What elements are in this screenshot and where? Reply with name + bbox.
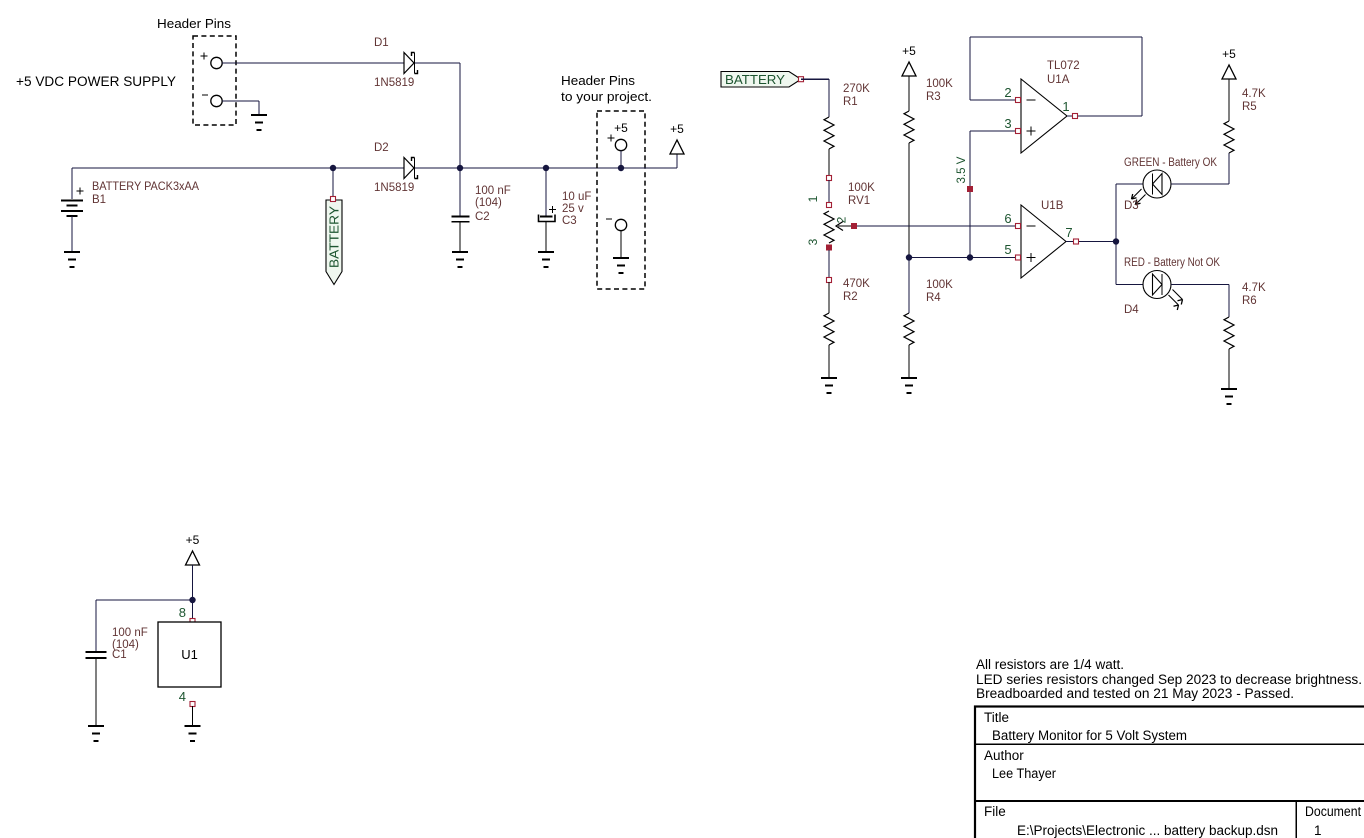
title block divider 2 bbox=[974, 800, 1364, 802]
wire to +5 arrow bbox=[621, 154, 677, 168]
label (104) (C1) bbox=[112, 639, 139, 651]
svg-text:E:\Projects\Electronic ... bat: E:\Projects\Electronic ... battery backu… bbox=[1017, 823, 1278, 838]
wire - pin to ground bbox=[222, 101, 259, 114]
wire R3 junction to R4 bbox=[908, 258, 910, 314]
resistor R3 100K bbox=[904, 111, 914, 257]
ground (U1) bbox=[185, 726, 201, 741]
junction 3.5V node bbox=[967, 254, 973, 260]
power flag +5 (U1) bbox=[186, 533, 200, 565]
svg-text:+5: +5 bbox=[670, 122, 684, 136]
label R1 bbox=[843, 96, 858, 108]
svg-text:5: 5 bbox=[1004, 242, 1011, 257]
svg-text:3.5 V: 3.5 V bbox=[956, 156, 968, 183]
label 470K (R2) bbox=[843, 278, 870, 290]
label U1A bbox=[1047, 74, 1070, 86]
junction output header bbox=[618, 165, 624, 171]
text Title bbox=[984, 710, 1009, 725]
wire to D3 bbox=[1116, 184, 1143, 242]
label RV1 bbox=[848, 195, 870, 207]
label 1N5819 (D2) bbox=[374, 182, 414, 194]
power flag +5 (R3) bbox=[902, 44, 916, 76]
svg-text:File: File bbox=[984, 804, 1006, 819]
pin - of input header bbox=[202, 95, 222, 107]
label 25 v (C3) bbox=[562, 203, 584, 215]
svg-text:TL072: TL072 bbox=[1047, 60, 1080, 72]
svg-text:R3: R3 bbox=[926, 91, 941, 103]
svg-text:U1B: U1B bbox=[1041, 200, 1064, 212]
wire R1 to RV1 bbox=[828, 180, 830, 204]
svg-text:Title: Title bbox=[984, 710, 1009, 725]
svg-text:R4: R4 bbox=[926, 292, 941, 304]
svg-text:100K: 100K bbox=[926, 279, 953, 291]
LED D3 green bbox=[1132, 170, 1172, 205]
connector J2 dashed outline bbox=[597, 111, 645, 289]
svg-text:1: 1 bbox=[806, 195, 820, 202]
pot RV1 pin3 square bbox=[826, 245, 832, 251]
svg-text:RV1: RV1 bbox=[848, 195, 870, 207]
label D1 bbox=[374, 37, 389, 49]
svg-text:100 nF: 100 nF bbox=[112, 627, 148, 639]
pin + of input header bbox=[201, 53, 223, 69]
label C2 bbox=[475, 211, 490, 223]
wire +5 to U1 pin8 bbox=[192, 565, 194, 620]
pin 8 (U1) bbox=[179, 605, 195, 624]
svg-text:BATTERY: BATTERY bbox=[725, 73, 786, 87]
svg-text:(104): (104) bbox=[475, 197, 502, 209]
label R3 bbox=[926, 91, 941, 103]
pin square R2 top bbox=[827, 278, 832, 283]
text +5 VDC POWER SUPPLY bbox=[16, 74, 176, 89]
label 100 nF (C1) bbox=[112, 627, 148, 639]
text Header Pins (output) bbox=[561, 73, 636, 88]
wire battery rail bbox=[72, 167, 404, 169]
text document number 1 bbox=[1314, 823, 1322, 838]
ground (battery B1) bbox=[64, 252, 80, 267]
ground (R2) bbox=[821, 378, 837, 393]
svg-text:+5: +5 bbox=[902, 44, 916, 58]
op-amp U1A TL072 bbox=[1021, 79, 1067, 153]
capacitor C2 100nF bbox=[452, 168, 470, 251]
resistor R6 4.7K bbox=[1224, 317, 1234, 388]
resistor R1 270K bbox=[824, 117, 834, 177]
label 100K (R3) bbox=[926, 78, 953, 90]
svg-text:R5: R5 bbox=[1242, 101, 1257, 113]
svg-text:1N5819: 1N5819 bbox=[374, 77, 414, 89]
svg-text:3: 3 bbox=[1004, 116, 1011, 131]
wire RV1 wiper to pin6 bbox=[857, 225, 1021, 227]
svg-text:All resistors are 1/4 watt.: All resistors are 1/4 watt. bbox=[976, 657, 1124, 672]
junction R3/R4 bbox=[906, 254, 912, 260]
svg-text:Author: Author bbox=[984, 748, 1024, 763]
pot RV1 pin1 square bbox=[827, 203, 832, 208]
svg-text:GREEN - Battery OK: GREEN - Battery OK bbox=[1124, 157, 1217, 169]
wire C2 to C3 bbox=[460, 167, 546, 169]
ground (R4) bbox=[901, 378, 917, 393]
pot RV1 pin2 square bbox=[851, 223, 857, 229]
op-amp U1B bbox=[1021, 205, 1066, 278]
label 4.7K (R6) bbox=[1242, 282, 1266, 294]
svg-text:100 nF: 100 nF bbox=[475, 185, 511, 197]
text Lee Thayer bbox=[992, 766, 1056, 781]
pin - of output header bbox=[606, 219, 627, 257]
pin 2 (U1A) bbox=[1004, 85, 1020, 103]
svg-text:4.7K: 4.7K bbox=[1242, 282, 1266, 294]
pin 7 (U1B) bbox=[1065, 225, 1078, 244]
capacitor C1 100nF bbox=[86, 652, 107, 725]
junction battery/flag bbox=[330, 165, 336, 171]
ground (R6) bbox=[1221, 389, 1237, 404]
svg-text:2: 2 bbox=[835, 216, 849, 223]
power flag +5 (main rail) bbox=[670, 122, 684, 154]
svg-text:Header Pins: Header Pins bbox=[157, 16, 232, 31]
ground (C2) bbox=[452, 252, 468, 267]
diode D1 1N5819 bbox=[404, 53, 418, 74]
svg-text:3: 3 bbox=[806, 238, 820, 245]
svg-text:270K: 270K bbox=[843, 83, 870, 95]
label B1 bbox=[92, 194, 106, 206]
wire + pin to D1 bbox=[222, 62, 404, 64]
wire U1 pin4 to ground bbox=[192, 706, 194, 725]
pin number 3 (RV1) bbox=[806, 238, 820, 245]
title block divider vertical bbox=[1295, 801, 1297, 838]
svg-text:BATTERY: BATTERY bbox=[328, 205, 342, 268]
svg-text:LED series resistors changed S: LED series resistors changed Sep 2023 to… bbox=[976, 672, 1362, 687]
text to your project. bbox=[561, 89, 652, 104]
label RED - Battery Not OK bbox=[1124, 257, 1220, 269]
svg-text:25 v: 25 v bbox=[562, 203, 584, 215]
label TL072 bbox=[1047, 60, 1080, 72]
svg-text:+5 VDC POWER SUPPLY: +5 VDC POWER SUPPLY bbox=[16, 74, 176, 89]
note LED resistors bbox=[976, 672, 1362, 687]
svg-text:4: 4 bbox=[179, 689, 186, 704]
wire BATTERY flag to R1 bbox=[801, 79, 829, 117]
label GREEN - Battery OK bbox=[1124, 157, 1217, 169]
svg-text:C2: C2 bbox=[475, 211, 490, 223]
svg-text:+5: +5 bbox=[1222, 47, 1236, 61]
wire junction row bbox=[909, 257, 1021, 259]
svg-text:R1: R1 bbox=[843, 96, 858, 108]
connector J1 dashed outline bbox=[193, 36, 236, 125]
svg-text:D2: D2 bbox=[374, 142, 389, 154]
label 100K (R4) bbox=[926, 279, 953, 291]
junction at C2 bbox=[457, 165, 463, 171]
wire D2 to +5 node bbox=[415, 167, 460, 169]
net flag BATTERY (vertical) bbox=[326, 197, 342, 285]
IC U1 box bbox=[158, 622, 221, 687]
label 100 nF (C2) bbox=[475, 185, 511, 197]
label BATTERY PACK3xAA bbox=[92, 181, 199, 193]
wire D1 to +5 node bbox=[415, 63, 460, 168]
svg-text:100K: 100K bbox=[926, 78, 953, 90]
label (104) (C2) bbox=[475, 197, 502, 209]
resistor R4 100K bbox=[904, 313, 914, 377]
ground (C1) bbox=[88, 726, 104, 741]
label U1B bbox=[1041, 200, 1064, 212]
power flag +5 (R5) bbox=[1222, 47, 1236, 79]
title block divider 1 bbox=[974, 743, 1364, 745]
svg-text:1: 1 bbox=[1062, 99, 1069, 114]
svg-text:1: 1 bbox=[1314, 823, 1322, 838]
wire D4 to R6 bbox=[1171, 285, 1229, 318]
label C1 bbox=[112, 649, 127, 661]
text Battery Monitor for 5 Volt System bbox=[992, 728, 1187, 743]
wire +5 to R3 bbox=[908, 76, 910, 111]
label R5 bbox=[1242, 101, 1257, 113]
wire RV1 to R2 bbox=[828, 250, 830, 279]
text File bbox=[984, 804, 1006, 819]
LED D4 red bbox=[1143, 271, 1183, 311]
text file path bbox=[1017, 823, 1278, 838]
wire D3 to R5 bbox=[1171, 153, 1229, 184]
svg-text:10 uF: 10 uF bbox=[562, 191, 591, 203]
svg-text:4.7K: 4.7K bbox=[1242, 88, 1266, 100]
label R2 bbox=[843, 291, 858, 303]
label R6 bbox=[1242, 295, 1257, 307]
label D2 bbox=[374, 142, 389, 154]
junction LED node bbox=[1113, 238, 1119, 244]
svg-text:100K: 100K bbox=[848, 182, 875, 194]
svg-text:Breadboarded and tested on 21: Breadboarded and tested on 21 May 2023 -… bbox=[976, 686, 1294, 701]
pin 5 (U1B) bbox=[1004, 242, 1020, 260]
svg-text:Battery Monitor for 5 Volt Sys: Battery Monitor for 5 Volt System bbox=[992, 728, 1187, 743]
svg-text:Lee Thayer: Lee Thayer bbox=[992, 766, 1056, 781]
svg-text:2: 2 bbox=[1004, 85, 1011, 100]
text Document bbox=[1305, 804, 1361, 819]
label D3 bbox=[1124, 200, 1139, 212]
svg-text:R2: R2 bbox=[843, 291, 858, 303]
wire 3.5V to pin3 bbox=[970, 130, 1021, 132]
svg-text:U1A: U1A bbox=[1047, 74, 1070, 86]
pin 1 (U1A) bbox=[1062, 99, 1077, 119]
wire +5 to R5 bbox=[1228, 79, 1230, 121]
svg-text:RED - Battery Not OK: RED - Battery Not OK bbox=[1124, 257, 1220, 269]
ground (input header) bbox=[251, 115, 267, 130]
label R4 bbox=[926, 292, 941, 304]
label 10 uF (C3) bbox=[562, 191, 591, 203]
svg-text:B1: B1 bbox=[92, 194, 106, 206]
wire junction to C1 bbox=[96, 600, 193, 651]
svg-text:C3: C3 bbox=[562, 215, 577, 227]
pin 4 (U1) bbox=[179, 689, 195, 707]
text Author bbox=[984, 748, 1024, 763]
pin number 1 (RV1) bbox=[806, 195, 820, 202]
junction C1/U1 bbox=[189, 597, 195, 603]
label 1N5819 (D1) bbox=[374, 77, 414, 89]
note breadboarded bbox=[976, 686, 1294, 701]
text Header Pins (input) bbox=[157, 16, 232, 31]
resistor R5 4.7K bbox=[1224, 121, 1234, 153]
net label 3.5 V bbox=[956, 156, 973, 192]
svg-text:D4: D4 bbox=[1124, 304, 1139, 316]
svg-text:BATTERY PACK3xAA: BATTERY PACK3xAA bbox=[92, 181, 199, 193]
svg-text:6: 6 bbox=[1004, 211, 1011, 226]
svg-text:R6: R6 bbox=[1242, 295, 1257, 307]
pin 6 (U1B) bbox=[1004, 211, 1020, 229]
svg-text:U1: U1 bbox=[181, 647, 198, 662]
pin number 2 (RV1) bbox=[835, 216, 849, 223]
svg-text:D1: D1 bbox=[374, 37, 389, 49]
svg-text:1N5819: 1N5819 bbox=[374, 182, 414, 194]
svg-text:C1: C1 bbox=[112, 649, 127, 661]
svg-text:D3: D3 bbox=[1124, 200, 1139, 212]
wire to D4 bbox=[1116, 242, 1143, 285]
label +5 (output header) bbox=[614, 121, 628, 135]
svg-text:+5: +5 bbox=[614, 121, 628, 135]
diode D2 1N5819 bbox=[404, 158, 418, 179]
svg-text:to your project.: to your project. bbox=[561, 89, 652, 104]
wire U1B output bbox=[1066, 241, 1116, 243]
pin 3 (U1A) bbox=[1004, 116, 1020, 134]
label D4 bbox=[1124, 304, 1139, 316]
resistor R2 470K bbox=[824, 282, 834, 377]
ground (C3) bbox=[538, 252, 554, 267]
svg-text:8: 8 bbox=[179, 605, 186, 620]
pin + of output header bbox=[608, 135, 627, 169]
svg-text:7: 7 bbox=[1065, 225, 1072, 240]
wire feedback U1A bbox=[970, 37, 1142, 116]
battery B1 bbox=[61, 168, 84, 251]
label 270K (R1) bbox=[843, 83, 870, 95]
note resistors bbox=[976, 657, 1124, 672]
junction at C3 bbox=[543, 165, 549, 171]
ground (output header) bbox=[613, 258, 629, 273]
svg-text:+5: +5 bbox=[186, 533, 200, 547]
label 4.7K (R5) bbox=[1242, 88, 1266, 100]
net flag BATTERY (horizontal) bbox=[721, 72, 804, 88]
pot RV1 100K body bbox=[824, 211, 852, 243]
label 100K (RV1) bbox=[848, 182, 875, 194]
label C3 bbox=[562, 215, 577, 227]
wire to BATTERY flag bbox=[332, 168, 334, 198]
wire C3 to output header bbox=[546, 167, 621, 169]
capacitor C3 10uF polarized bbox=[539, 168, 557, 251]
svg-text:470K: 470K bbox=[843, 278, 870, 290]
svg-text:Document: Document bbox=[1305, 804, 1361, 819]
title block border bbox=[975, 707, 1364, 838]
pin square R1 bottom bbox=[827, 176, 832, 181]
net 3.5V vertical wire bbox=[969, 131, 971, 258]
svg-text:Header Pins: Header Pins bbox=[561, 73, 636, 88]
